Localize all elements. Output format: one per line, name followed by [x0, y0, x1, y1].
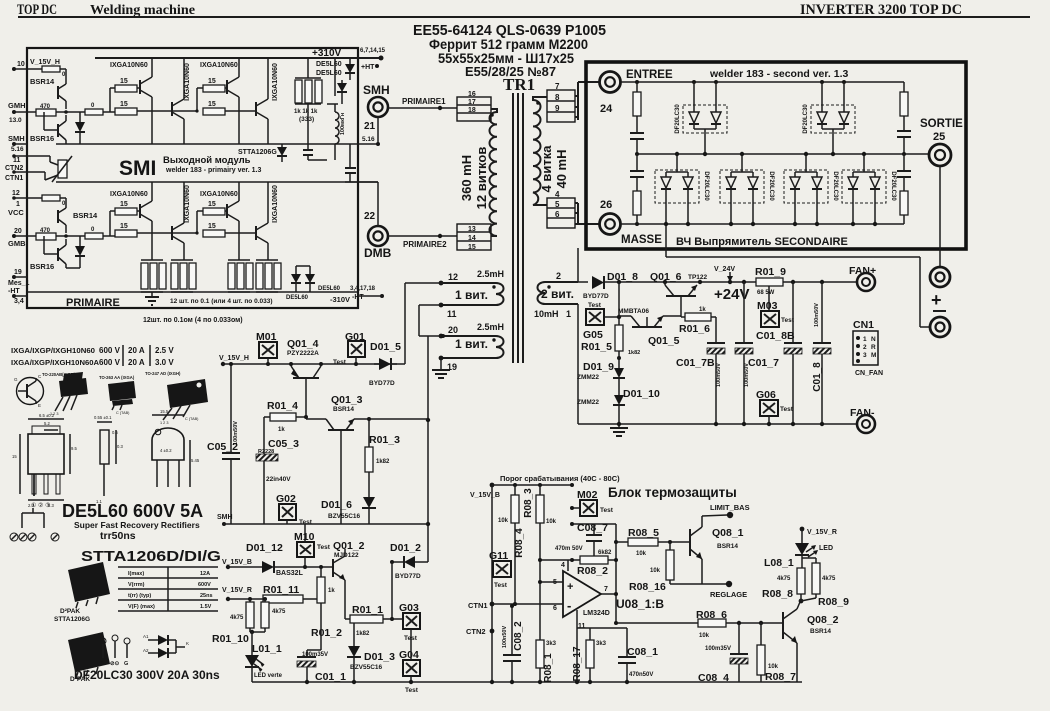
svg-text:Test: Test	[600, 507, 614, 514]
svg-text:7: 7	[555, 82, 560, 91]
node +HT	[375, 64, 379, 68]
svg-text:D01_8: D01_8	[607, 271, 638, 283]
svg-text:8: 8	[555, 93, 560, 102]
svg-text:TR1: TR1	[503, 75, 535, 94]
lower diode pair 1	[655, 152, 709, 226]
svg-text:1k82: 1k82	[356, 631, 370, 637]
svg-text:SORTIE: SORTIE	[920, 118, 963, 130]
svg-text:2.5 V: 2.5 V	[155, 346, 174, 355]
svg-text:DMB: DMB	[364, 246, 392, 260]
svg-text:Mes_1: Mes_1	[8, 280, 30, 287]
svg-text:360 mH: 360 mH	[459, 155, 474, 201]
svg-text:10k: 10k	[650, 568, 661, 574]
svg-text:-310V: -310V	[330, 295, 350, 304]
gate resistor 15	[203, 230, 225, 237]
svg-text:R01_5: R01_5	[581, 341, 612, 353]
svg-text:C08_7: C08_7	[577, 522, 608, 534]
svg-text:V_15V_B: V_15V_B	[222, 559, 252, 566]
svg-text:Q01_5: Q01_5	[648, 335, 680, 347]
svg-text:3,4,17,18: 3,4,17,18	[350, 286, 376, 292]
svg-text:ENTREE: ENTREE	[626, 69, 673, 81]
svg-text:IXGA10N60: IXGA10N60	[272, 63, 279, 101]
svg-text:2.5mH: 2.5mH	[477, 269, 504, 279]
ground pin 19	[440, 358, 442, 370]
svg-text:2.5mH: 2.5mH	[477, 322, 504, 332]
primary winding coil	[489, 109, 497, 236]
svg-text:7: 7	[604, 586, 608, 593]
svg-text:D01_9: D01_9	[583, 361, 614, 373]
svg-text:+: +	[931, 290, 942, 310]
svg-text:V_15V_R: V_15V_R	[807, 529, 837, 536]
svg-text:Q01_4: Q01_4	[287, 338, 319, 350]
secondary bus to ENTREE	[575, 95, 578, 97]
pin diagram	[100, 638, 106, 644]
svg-text:15: 15	[208, 101, 216, 108]
svg-text:100m50V: 100m50V	[744, 363, 750, 387]
snubber cap	[303, 149, 313, 151]
svg-text:6.5 ±0.2: 6.5 ±0.2	[39, 413, 55, 418]
svg-text:DF20LC30 300V 20A 30ns: DF20LC30 300V 20A 30ns	[74, 668, 220, 682]
svg-text:3k3: 3k3	[596, 641, 607, 647]
emitter resistor bank 4	[256, 259, 278, 261]
svg-text:D²PAK: D²PAK	[60, 608, 80, 615]
svg-text:DE5L60: DE5L60	[316, 70, 342, 77]
svg-text:11: 11	[13, 157, 21, 164]
svg-text:15: 15	[208, 201, 216, 208]
svg-text:1 вит.: 1 вит.	[455, 288, 488, 302]
svg-text:MJD122: MJD122	[334, 552, 359, 559]
gate resistor 15	[115, 108, 137, 115]
svg-text:+: +	[567, 581, 573, 593]
svg-text:6: 6	[555, 210, 560, 219]
svg-text:① ② ③: ① ② ③	[31, 502, 50, 509]
svg-text:BSR16: BSR16	[30, 262, 54, 271]
core lines	[512, 93, 514, 363]
svg-text:R01_2: R01_2	[311, 627, 342, 639]
svg-text:BZV55C16: BZV55C16	[328, 513, 361, 520]
svg-text:1 вит.: 1 вит.	[455, 337, 488, 351]
dimension drawing side view	[100, 430, 109, 464]
emitter resistor bank 3	[228, 259, 250, 261]
svg-text:BYD77D: BYD77D	[583, 293, 609, 300]
wire winding 1-side down	[577, 281, 579, 283]
NTC thermistor	[14, 155, 50, 157]
svg-text:L01_1: L01_1	[252, 643, 282, 655]
svg-text:15: 15	[120, 223, 128, 230]
pin box 16 17 18	[457, 97, 491, 121]
svg-text:Test: Test	[299, 519, 313, 526]
emitter resistor bank 1	[141, 259, 163, 261]
svg-text:15: 15	[208, 223, 216, 230]
secondary winding coil	[533, 97, 547, 205]
svg-text:D01_5: D01_5	[370, 341, 401, 353]
svg-text:LM324D: LM324D	[583, 610, 610, 617]
svg-text:LIMIT_BAS: LIMIT_BAS	[710, 503, 750, 512]
svg-text:DF20LC30: DF20LC30	[675, 104, 681, 134]
svg-text:14: 14	[468, 235, 476, 242]
svg-text:470n50V: 470n50V	[629, 672, 653, 678]
svg-text:GMH: GMH	[8, 101, 26, 110]
svg-text:DE5L60: DE5L60	[318, 286, 341, 292]
svg-text:N: N	[871, 336, 876, 343]
svg-text:+310V: +310V	[312, 48, 342, 59]
svg-text:C (TAB): C (TAB)	[116, 411, 130, 415]
svg-text:20 A: 20 A	[128, 358, 145, 367]
svg-text:4 ±0.2: 4 ±0.2	[160, 448, 172, 453]
top rail (entree)	[621, 81, 904, 83]
IGBT Q-C bottom	[226, 204, 228, 218]
svg-text:20: 20	[14, 228, 22, 235]
svg-text:4: 4	[561, 562, 565, 569]
right snubber column	[903, 82, 905, 92]
svg-text:15: 15	[120, 78, 128, 85]
svg-text:100мкГн: 100мкГн	[340, 113, 346, 135]
svg-text:trr50ns: trr50ns	[100, 530, 136, 542]
svg-text:4k75: 4k75	[230, 615, 244, 621]
wire sortie down to plus	[939, 166, 941, 266]
svg-text:M: M	[871, 352, 876, 359]
svg-text:100m50V: 100m50V	[814, 303, 820, 327]
wire masse to minus	[665, 226, 667, 257]
snubber inductor	[335, 112, 339, 144]
svg-text:BSR14: BSR14	[717, 543, 738, 550]
wire DMB to module	[345, 181, 378, 183]
svg-text:100n50V: 100n50V	[502, 626, 508, 649]
svg-text:BAS32L: BAS32L	[276, 570, 304, 577]
svg-text:R08_8: R08_8	[762, 588, 793, 600]
gate resistor 15	[115, 230, 137, 237]
svg-text:470: 470	[40, 104, 51, 110]
resistor R08_17 3k3	[577, 627, 590, 629]
svg-text:1: 1	[16, 201, 20, 208]
svg-text:2: 2	[556, 271, 561, 281]
svg-text:R2228: R2228	[258, 449, 274, 455]
svg-text:C08_4: C08_4	[698, 672, 729, 684]
svg-text:R01_6: R01_6	[679, 323, 710, 335]
svg-text:55х55х25мм - Ш17х25: 55х55х25мм - Ш17х25	[438, 50, 574, 66]
IGBT Q-B top	[171, 102, 173, 116]
svg-text:Блок термозащиты: Блок термозащиты	[608, 485, 737, 500]
resistor 0 (bottom gate feed)	[85, 233, 103, 239]
svg-text:3k3: 3k3	[546, 641, 557, 647]
svg-text:68 5W: 68 5W	[757, 290, 775, 296]
svg-text:IXGA10N60: IXGA10N60	[110, 62, 148, 69]
svg-text:2: 2	[863, 344, 867, 351]
svg-text:0.5: 0.5	[112, 430, 118, 435]
svg-text:Test: Test	[588, 302, 602, 309]
svg-text:10k: 10k	[768, 664, 779, 670]
svg-text:18: 18	[468, 107, 476, 114]
svg-text:12: 12	[12, 190, 20, 197]
bus 4 5 6 to MASSE	[575, 202, 578, 204]
svg-text:IXGA/IXGP/IXGH10N60A: IXGA/IXGP/IXGH10N60A	[11, 358, 100, 367]
svg-text:PRIMAIRE2: PRIMAIRE2	[403, 240, 447, 249]
svg-text:ZMM22: ZMM22	[577, 399, 599, 406]
svg-text:BSR14: BSR14	[333, 406, 354, 413]
pin box 4 5 6	[547, 198, 575, 228]
svg-text:6: 6	[553, 605, 557, 612]
wire SMH to module	[377, 117, 379, 144]
svg-text:C01_8B: C01_8B	[756, 330, 795, 342]
svg-text:Test: Test	[780, 406, 794, 413]
diodes DE5L60 bottom	[295, 266, 297, 274]
svg-text:GMB: GMB	[8, 239, 26, 248]
cap C08_1 470n50V	[590, 627, 627, 629]
primary module box SMI	[27, 48, 358, 308]
wire from masse box down left	[577, 248, 579, 282]
node 6,7,14,15	[379, 56, 384, 61]
svg-text:DE5L60: DE5L60	[316, 61, 342, 68]
svg-text:5.2: 5.2	[44, 421, 50, 426]
svg-text:IXGA10N60: IXGA10N60	[200, 62, 238, 69]
svg-text:R08_2: R08_2	[577, 565, 608, 577]
terminal ENTREE 24	[600, 72, 621, 93]
svg-text:welder 183 - second ver. 1.3: welder 183 - second ver. 1.3	[709, 68, 848, 80]
snubber resistors 1k 1k 1k	[295, 77, 321, 79]
svg-text:G05: G05	[583, 329, 603, 341]
svg-text:470m 50V: 470m 50V	[555, 546, 583, 552]
svg-text:PRIMAIRE1: PRIMAIRE1	[402, 97, 446, 106]
svg-text:BZV55C16: BZV55C16	[350, 664, 383, 671]
svg-text:D01_3: D01_3	[364, 651, 395, 663]
svg-text:D01_12: D01_12	[246, 542, 283, 554]
svg-text:3: 3	[863, 352, 867, 359]
DMB rail (bottom bridge collector rail)	[56, 181, 378, 183]
svg-text:CN_FAN: CN_FAN	[855, 370, 883, 377]
svg-text:Порог срабатывания (40С - 80С): Порог срабатывания (40С - 80С)	[500, 474, 620, 483]
rail dots bottom	[490, 680, 494, 684]
svg-text:22in40V: 22in40V	[266, 476, 291, 483]
svg-text:V(F) (max): V(F) (max)	[128, 604, 155, 610]
IGBT Q-D bottom	[255, 226, 257, 240]
svg-text:R01_1: R01_1	[352, 604, 383, 616]
resistor R08_8 4k75	[797, 568, 805, 594]
svg-text:A1: A1	[143, 634, 149, 639]
svg-text:ZMM22: ZMM22	[577, 374, 599, 381]
svg-text:1k: 1k	[328, 588, 335, 594]
svg-text:D01_10: D01_10	[623, 388, 660, 400]
ground at bank	[151, 292, 153, 297]
svg-text:⊘⊙: ⊘⊙	[110, 661, 120, 667]
test point M03	[768, 286, 770, 311]
svg-text:15: 15	[120, 201, 128, 208]
svg-text:12: 12	[448, 272, 458, 282]
svg-text:5.45: 5.45	[191, 458, 200, 463]
svg-text:R: R	[871, 344, 876, 351]
svg-text:24: 24	[600, 103, 613, 115]
svg-text:CN1: CN1	[853, 319, 874, 331]
vertical V_15V_B	[491, 485, 493, 682]
svg-text:4k75: 4k75	[272, 609, 286, 615]
svg-text:BYD77D: BYD77D	[369, 380, 395, 387]
pin5 wire	[540, 581, 563, 583]
cap C08_4 100m35V	[738, 623, 740, 654]
svg-text:+HT: +HT	[361, 64, 375, 71]
svg-text:1 2 3: 1 2 3	[160, 421, 168, 425]
terminal MASSE 26	[600, 214, 621, 235]
pin 7 wire and feedback column	[601, 593, 616, 595]
node R08_8/R08_9 junction	[799, 599, 804, 604]
svg-text:V_24V: V_24V	[714, 266, 735, 273]
svg-text:TP122: TP122	[688, 274, 708, 281]
svg-text:TO-247 AD (IXGH): TO-247 AD (IXGH)	[145, 371, 181, 376]
svg-text:REGLAGE: REGLAGE	[710, 590, 747, 599]
resistor R01_5 1k82	[618, 323, 620, 325]
IGBT Q-C top	[226, 80, 228, 94]
pin 11 wire	[576, 610, 578, 682]
svg-text:600 V: 600 V	[99, 358, 121, 367]
gate resistor 15	[115, 208, 137, 215]
svg-text:20 A: 20 A	[128, 346, 145, 355]
dual diode symbol	[148, 639, 158, 641]
IGBT Q-D top	[255, 102, 257, 116]
top diode pair 2 DF20LC30	[811, 105, 855, 133]
pin 10 V_15V_H	[12, 67, 16, 71]
zener D01_3 BZV55C16	[353, 623, 355, 646]
svg-text:5.16: 5.16	[362, 136, 375, 143]
IGBT Q-B bottom	[171, 226, 173, 240]
svg-text:IXGA10N60: IXGA10N60	[110, 191, 148, 198]
svg-text:R08_1: R08_1	[543, 653, 554, 683]
svg-text:Q08_1: Q08_1	[712, 527, 744, 539]
pin box 7 8 9	[547, 90, 575, 122]
D2PAK package 2	[68, 632, 110, 672]
node R01_10	[249, 628, 251, 632]
svg-text:C (TAB): C (TAB)	[185, 417, 199, 421]
svg-text:I(max): I(max)	[128, 571, 144, 577]
dimension drawing TO-263 front	[28, 434, 64, 474]
svg-text:Q01_2: Q01_2	[333, 540, 365, 552]
svg-text:16: 16	[468, 91, 476, 98]
svg-text:MMBTA06: MMBTA06	[618, 308, 649, 315]
svg-text:100m50V: 100m50V	[716, 363, 722, 387]
svg-text:CTN2: CTN2	[466, 627, 486, 636]
resistor R08_7 10k	[760, 623, 762, 645]
svg-text:DE5L60: DE5L60	[286, 295, 309, 301]
svg-text:BSR14: BSR14	[73, 211, 98, 220]
svg-text:SMH: SMH	[217, 514, 233, 521]
svg-text:R08_9: R08_9	[818, 596, 849, 608]
svg-text:Test: Test	[494, 582, 508, 589]
svg-text:D01_6: D01_6	[321, 499, 352, 511]
svg-text:SMI: SMI	[119, 157, 156, 180]
feedback wire	[572, 523, 616, 525]
svg-text:Test: Test	[405, 687, 419, 694]
svg-text:Q08_2: Q08_2	[807, 614, 839, 626]
svg-text:SMH: SMH	[8, 134, 25, 143]
svg-text:BSR14: BSR14	[30, 77, 55, 86]
svg-text:A2: A2	[143, 648, 149, 653]
D2PAK package 1	[68, 562, 110, 602]
svg-text:4k75: 4k75	[822, 576, 836, 582]
svg-text:26: 26	[600, 199, 612, 211]
svg-text:-HT: -HT	[352, 294, 364, 301]
svg-text:V_15V_B: V_15V_B	[470, 492, 500, 499]
+24V rail	[604, 281, 857, 283]
svg-text:20: 20	[448, 325, 458, 335]
svg-text:R08_3: R08_3	[523, 488, 534, 518]
svg-text:25: 25	[933, 131, 945, 143]
svg-text:13: 13	[468, 226, 476, 233]
svg-text:600 V: 600 V	[99, 346, 121, 355]
svg-text:R01_4: R01_4	[267, 400, 298, 412]
svg-text:470: 470	[40, 228, 51, 234]
diode DE5L60 second	[337, 83, 347, 92]
svg-text:100m50V: 100m50V	[233, 421, 239, 445]
svg-text:15: 15	[12, 454, 17, 459]
IGBT Q-A bottom	[139, 204, 141, 218]
svg-text:TOP DC: TOP DC	[17, 2, 57, 18]
svg-text:t(rr) (typ): t(rr) (typ)	[128, 593, 151, 599]
svg-text:DF20LC30: DF20LC30	[703, 171, 709, 201]
resistor 4k75 a	[249, 599, 251, 602]
svg-text:1: 1	[863, 336, 867, 343]
emitter resistor bank 2	[171, 259, 193, 261]
svg-text:1k 1k 1k: 1k 1k 1k	[294, 109, 318, 115]
svg-text:SMH: SMH	[363, 83, 390, 97]
resistor 0 (bottom driver)	[42, 195, 60, 201]
svg-text:6,7,14,15: 6,7,14,15	[360, 48, 386, 54]
LIMIT_BAS node	[727, 512, 733, 518]
svg-text:R01_3: R01_3	[369, 434, 400, 446]
resistor 0 (top driver)	[42, 66, 60, 72]
svg-text:R08_7: R08_7	[765, 671, 796, 683]
svg-text:10k: 10k	[498, 518, 509, 524]
resistor R08_3	[539, 485, 541, 495]
terminal minus	[930, 317, 950, 337]
diode D01_8 BYD77D	[592, 276, 604, 289]
left snubber column	[635, 80, 639, 84]
wire from winding 2 to D01_8	[578, 281, 588, 283]
svg-text:10mH: 10mH	[534, 309, 559, 319]
svg-text:1.5V: 1.5V	[200, 604, 212, 610]
svg-text:ВЧ Выпрямитель SECONDAIRE: ВЧ Выпрямитель SECONDAIRE	[676, 236, 848, 248]
svg-text:9: 9	[555, 104, 560, 113]
svg-text:13.0: 13.0	[9, 117, 22, 124]
svg-text:IXGA10N60: IXGA10N60	[200, 191, 238, 198]
SMH mid rail	[56, 143, 378, 145]
svg-text:2 вит.: 2 вит.	[541, 287, 574, 301]
svg-text:R01_9: R01_9	[755, 266, 786, 278]
svg-text:V_15V_H: V_15V_H	[219, 355, 249, 362]
svg-text:welder 183 - primairy ver. 1.3: welder 183 - primairy ver. 1.3	[165, 167, 261, 174]
svg-text:BYD77D: BYD77D	[395, 573, 421, 580]
svg-text:R01_10: R01_10	[212, 633, 249, 645]
resistor 4k75 b	[264, 599, 266, 602]
svg-text:BSR14: BSR14	[810, 628, 831, 635]
svg-text:0.3: 0.3	[117, 444, 123, 449]
svg-text:PZY2222A: PZY2222A	[287, 350, 319, 357]
svg-text:100m35V: 100m35V	[705, 646, 731, 652]
svg-text:1k: 1k	[699, 307, 706, 313]
IGBT symbol in circle	[17, 378, 44, 405]
wires from aux winding 1	[405, 282, 441, 284]
svg-text:IXGA10N60: IXGA10N60	[272, 185, 279, 223]
svg-text:600V: 600V	[198, 582, 211, 588]
svg-text:C01_1: C01_1	[315, 671, 346, 683]
svg-text:DF20LC30: DF20LC30	[890, 171, 896, 201]
svg-text:D: D	[100, 661, 104, 667]
svg-text:4: 4	[555, 190, 560, 199]
svg-text:TO-263 AA (IXGA): TO-263 AA (IXGA)	[99, 375, 135, 380]
svg-text:E: E	[38, 403, 41, 408]
svg-text:1k82: 1k82	[376, 459, 390, 465]
svg-text:C01_7: C01_7	[748, 357, 779, 369]
dimension drawing TO-247 front	[155, 429, 161, 435]
cap C01_7	[743, 282, 745, 343]
svg-text:CTN1: CTN1	[5, 175, 23, 182]
svg-text:(333): (333)	[299, 116, 314, 123]
